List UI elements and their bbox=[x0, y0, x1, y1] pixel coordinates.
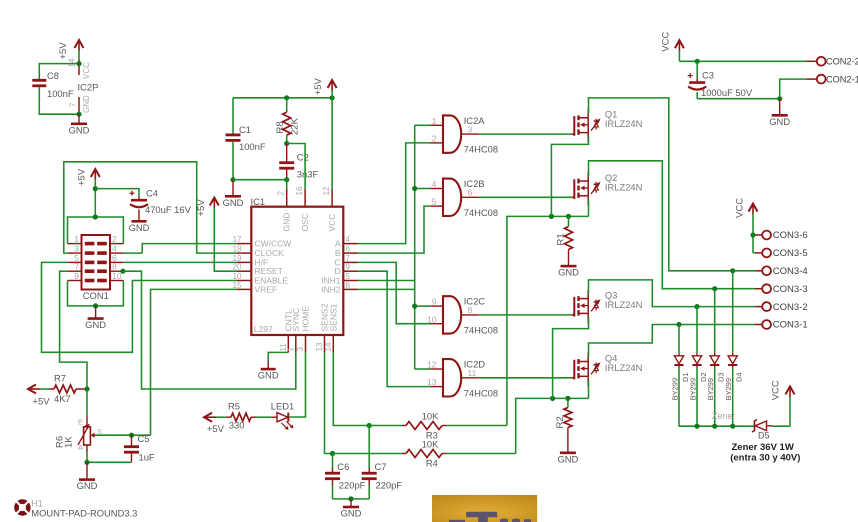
svg-text:330: 330 bbox=[229, 419, 245, 430]
svg-text:CON2-1: CON2-1 bbox=[826, 74, 858, 84]
svg-text:5: 5 bbox=[346, 272, 351, 281]
svg-text:4: 4 bbox=[346, 235, 351, 244]
svg-text:3: 3 bbox=[296, 347, 305, 352]
svg-text:A: A bbox=[78, 443, 83, 452]
svg-text:VREF: VREF bbox=[255, 284, 278, 294]
svg-text:C4: C4 bbox=[146, 188, 158, 199]
svg-text:9: 9 bbox=[346, 263, 351, 272]
svg-text:20: 20 bbox=[233, 263, 242, 272]
svg-text:10: 10 bbox=[233, 272, 242, 281]
svg-text:R2: R2 bbox=[555, 416, 566, 428]
svg-text:IRLZ24N: IRLZ24N bbox=[605, 299, 643, 310]
svg-text:C7: C7 bbox=[375, 461, 387, 472]
svg-text:GND: GND bbox=[282, 213, 292, 232]
svg-text:SYNC: SYNC bbox=[291, 308, 301, 332]
svg-text:470uF 16V: 470uF 16V bbox=[145, 204, 192, 215]
svg-text:+5V: +5V bbox=[313, 77, 324, 95]
svg-text:CON3-3: CON3-3 bbox=[773, 284, 808, 295]
svg-text:9: 9 bbox=[432, 297, 437, 307]
svg-text:BY299: BY299 bbox=[724, 378, 733, 401]
svg-text:1K: 1K bbox=[64, 436, 75, 448]
svg-text:R7: R7 bbox=[54, 373, 66, 384]
svg-text:R5: R5 bbox=[228, 401, 240, 412]
svg-text:10: 10 bbox=[112, 271, 122, 281]
svg-text:+5V: +5V bbox=[196, 199, 207, 217]
svg-text:3: 3 bbox=[468, 124, 473, 134]
svg-text:5: 5 bbox=[432, 197, 437, 207]
svg-text:13: 13 bbox=[427, 377, 437, 387]
svg-text:CON3-6: CON3-6 bbox=[773, 230, 808, 241]
svg-text:A: A bbox=[335, 239, 341, 249]
svg-text:Zener: Zener bbox=[712, 411, 736, 421]
svg-text:9: 9 bbox=[74, 271, 79, 281]
svg-text:GND: GND bbox=[129, 222, 150, 233]
svg-text:GND: GND bbox=[85, 319, 106, 330]
svg-text:CON2-2: CON2-2 bbox=[826, 57, 858, 67]
svg-text:10: 10 bbox=[427, 314, 437, 324]
svg-text:R4: R4 bbox=[426, 457, 438, 468]
svg-text:16: 16 bbox=[295, 186, 304, 195]
svg-text:6: 6 bbox=[468, 188, 473, 198]
svg-text:C2: C2 bbox=[297, 151, 309, 162]
svg-text:R1: R1 bbox=[556, 233, 567, 245]
svg-text:CW/CCW: CW/CCW bbox=[255, 239, 292, 249]
svg-text:1: 1 bbox=[432, 116, 437, 126]
svg-text:22K: 22K bbox=[290, 117, 301, 135]
svg-text:220pF: 220pF bbox=[339, 479, 366, 490]
svg-text:74HC08: 74HC08 bbox=[464, 325, 498, 336]
svg-text:6: 6 bbox=[346, 245, 351, 254]
svg-text:13: 13 bbox=[315, 342, 324, 351]
svg-text:1: 1 bbox=[74, 234, 79, 244]
svg-text:2: 2 bbox=[277, 191, 286, 196]
svg-text:74HC08: 74HC08 bbox=[464, 207, 498, 218]
svg-text:18: 18 bbox=[233, 245, 242, 254]
svg-text:8: 8 bbox=[346, 281, 351, 290]
svg-text:VCC: VCC bbox=[661, 32, 672, 52]
svg-text:74HC08: 74HC08 bbox=[464, 387, 498, 398]
svg-text:C3: C3 bbox=[702, 69, 714, 80]
svg-text:1000uF 50V: 1000uF 50V bbox=[701, 87, 753, 98]
svg-text:GND: GND bbox=[341, 508, 362, 519]
svg-text:CON3-1: CON3-1 bbox=[773, 320, 808, 331]
svg-text:Zener 36V 1W: Zener 36V 1W bbox=[732, 442, 794, 453]
svg-text:HOME: HOME bbox=[301, 306, 311, 332]
svg-text:CON1: CON1 bbox=[83, 290, 109, 301]
svg-text:C1: C1 bbox=[239, 124, 251, 135]
svg-text:4K7: 4K7 bbox=[54, 393, 71, 404]
svg-text:C8: C8 bbox=[47, 70, 59, 81]
svg-text:8: 8 bbox=[468, 305, 473, 315]
svg-text:10K: 10K bbox=[422, 411, 439, 422]
svg-text:CON3-4: CON3-4 bbox=[773, 266, 808, 277]
svg-text:D5: D5 bbox=[758, 430, 770, 440]
svg-text:14: 14 bbox=[68, 58, 77, 67]
svg-text:7: 7 bbox=[69, 102, 78, 107]
svg-text:15: 15 bbox=[233, 281, 242, 290]
svg-text:14: 14 bbox=[324, 342, 333, 351]
svg-text:C6: C6 bbox=[337, 461, 349, 472]
svg-text:VCC: VCC bbox=[327, 214, 337, 232]
svg-text:E: E bbox=[78, 418, 83, 427]
svg-text:+5V: +5V bbox=[32, 397, 50, 408]
svg-text:17: 17 bbox=[233, 235, 242, 244]
svg-text:2: 2 bbox=[432, 134, 437, 144]
svg-text:IRLZ24N: IRLZ24N bbox=[605, 362, 643, 373]
svg-text:3n3F: 3n3F bbox=[297, 169, 319, 180]
svg-text:12: 12 bbox=[427, 360, 437, 370]
svg-text:74HC08: 74HC08 bbox=[464, 144, 498, 155]
svg-text:MOUNT-PAD-ROUND3.3: MOUNT-PAD-ROUND3.3 bbox=[31, 508, 137, 519]
svg-text:+5V: +5V bbox=[207, 424, 225, 435]
svg-text:INH2: INH2 bbox=[321, 284, 341, 294]
svg-text:7: 7 bbox=[346, 254, 351, 263]
svg-text:GND: GND bbox=[82, 95, 91, 113]
svg-text:IC1: IC1 bbox=[251, 196, 266, 207]
svg-text:VCC: VCC bbox=[82, 62, 91, 79]
svg-text:GND: GND bbox=[558, 267, 579, 278]
svg-text:100nF: 100nF bbox=[47, 88, 74, 99]
svg-text:GND: GND bbox=[258, 370, 279, 381]
svg-text:GND: GND bbox=[77, 480, 98, 491]
svg-text:11: 11 bbox=[468, 368, 477, 378]
svg-text:+5V: +5V bbox=[77, 168, 88, 186]
svg-text:12: 12 bbox=[322, 186, 331, 195]
svg-text:C5: C5 bbox=[138, 433, 150, 444]
svg-text:GND: GND bbox=[557, 453, 578, 464]
svg-text:SENS1: SENS1 bbox=[328, 303, 338, 331]
svg-text:CON3-2: CON3-2 bbox=[773, 302, 808, 313]
svg-text:LED1: LED1 bbox=[271, 401, 294, 412]
svg-text:(entra 30 y 40V): (entra 30 y 40V) bbox=[730, 453, 800, 464]
svg-text:VCC: VCC bbox=[735, 198, 746, 218]
svg-text:GND: GND bbox=[769, 116, 790, 127]
svg-text:VCC: VCC bbox=[771, 380, 782, 400]
svg-text:GND: GND bbox=[69, 124, 90, 135]
svg-text:D4: D4 bbox=[735, 372, 744, 382]
svg-text:2: 2 bbox=[112, 234, 117, 244]
svg-text:BY299: BY299 bbox=[689, 378, 698, 401]
svg-text:L297: L297 bbox=[254, 324, 273, 334]
svg-text:GND: GND bbox=[223, 197, 244, 208]
svg-text:IC2P: IC2P bbox=[78, 82, 99, 93]
svg-text:IRLZ24N: IRLZ24N bbox=[605, 118, 643, 129]
svg-text:10K: 10K bbox=[422, 439, 439, 450]
svg-text:4: 4 bbox=[432, 179, 437, 189]
svg-text:R8: R8 bbox=[275, 121, 286, 133]
svg-text:1: 1 bbox=[286, 347, 295, 352]
svg-text:220pF: 220pF bbox=[376, 479, 403, 490]
svg-text:19: 19 bbox=[233, 254, 242, 263]
svg-text:BY299: BY299 bbox=[706, 378, 715, 401]
svg-text:100nF: 100nF bbox=[239, 141, 266, 152]
svg-text:+5V: +5V bbox=[58, 42, 69, 60]
svg-text:1uF: 1uF bbox=[139, 451, 155, 462]
svg-text:IRLZ24N: IRLZ24N bbox=[605, 181, 643, 192]
svg-text:CON3-5: CON3-5 bbox=[773, 248, 808, 259]
svg-text:BY299: BY299 bbox=[671, 378, 680, 401]
svg-text:OSC: OSC bbox=[300, 213, 310, 231]
